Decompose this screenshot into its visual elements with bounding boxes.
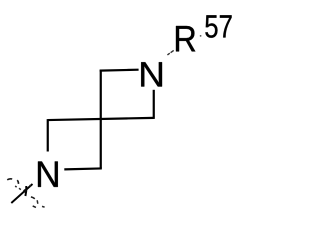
squiggle fragment 8 <box>42 205 45 208</box>
wire: upper ring right side <box>153 90 155 119</box>
squiggle fragment 4 <box>19 188 21 189</box>
squiggle fragment 2 <box>17 180 18 184</box>
attachment wavy line (bond cut squiggle), fragment 1 <box>7 178 12 181</box>
wire: spiro vertical spine (upper-ring left side + lower-ring right side) <box>100 70 102 169</box>
wire: lower ring bottom side <box>64 167 102 170</box>
squiggle fragment 3 <box>15 186 16 187</box>
chemical structure: 2,6-diazaspiro[3.3]heptane fragment with R57 <box>0 0 240 222</box>
squiggle fragment 5 <box>31 197 35 199</box>
squiggle crossing stroke over bond <box>24 186 27 196</box>
squiggle fragment 6 <box>36 200 39 204</box>
squiggle crest tick <box>29 185 30 186</box>
wire: lower ring left side <box>47 119 49 151</box>
squiggle fragment 7 <box>33 206 36 208</box>
superscript 5 <box>205 15 217 37</box>
substituent label R <box>176 26 195 51</box>
wire: spiro horizontal (upper-ring bottom + lower-ring top) <box>48 118 154 120</box>
ink blob at squiggle/bond crossing <box>22 188 27 193</box>
atom label: upper N <box>141 62 162 86</box>
bond: upper N to R57, dash a <box>167 53 169 55</box>
bond: lower N attachment <box>11 184 32 203</box>
wire: upper ring top side <box>100 69 139 72</box>
superscript 7 <box>220 15 232 37</box>
atom label: lower N <box>38 161 58 186</box>
scan speckle near superscript <box>200 35 202 37</box>
bond: upper N to R57, dash b <box>171 50 174 52</box>
